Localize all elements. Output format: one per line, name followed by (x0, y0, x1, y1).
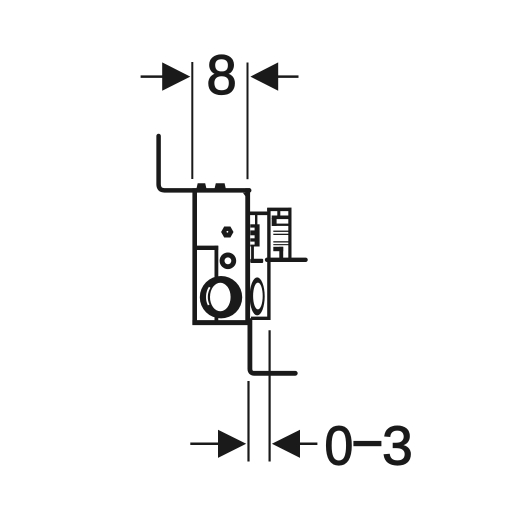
bellows stack (250, 224, 259, 246)
svg-text:0: 0 (324, 416, 353, 477)
dimension arrow top-left head (162, 62, 190, 90)
tab 1 on top edge (196, 183, 207, 190)
bellows foot (250, 259, 263, 263)
dimension arrow bottom-right head (272, 430, 300, 458)
cartridge cap band (272, 216, 289, 220)
valve housing bottom shelf (267, 258, 306, 262)
small ring (220, 252, 237, 269)
connector line body to valve (248, 212, 268, 216)
svg-text:8: 8 (206, 43, 236, 106)
extension line bottom-right (269, 330, 271, 461)
grommet highlight arc (207, 287, 210, 305)
valve housing left edge and compartment bottom (251, 208, 269, 318)
svg-text:3: 3 (382, 414, 413, 476)
extension line bottom-left (247, 381, 249, 462)
valve housing right edge (288, 208, 291, 260)
valve housing top edge (267, 208, 291, 212)
cartridge separator line 5 (273, 244, 288, 245)
hex nut (221, 227, 233, 238)
bellows stem top (255, 215, 257, 226)
dimension text dash (353, 441, 381, 446)
inner compartment divider horizontal (195, 246, 218, 250)
big grommet ring (200, 276, 242, 318)
dimension arrow top-left line (141, 75, 164, 78)
extension line top-left (191, 62, 193, 179)
body left edge (192, 188, 197, 325)
cartridge left step (272, 218, 277, 226)
flush bend ellipse (250, 277, 265, 315)
wall bracket top-left (159, 136, 250, 190)
cartridge separator line 3 (273, 234, 288, 235)
cartridge separator line 2 (273, 231, 288, 232)
body right edge (245, 188, 250, 325)
dimension arrow bottom-left line (190, 443, 220, 446)
cartridge separator line 4 (273, 241, 288, 242)
cartridge bottom band (273, 247, 283, 251)
extension line top-right (247, 63, 249, 180)
valve top divider (277, 208, 280, 216)
cartridge separator line 1 (275, 224, 288, 226)
tab 2 on top edge (214, 183, 226, 190)
dimension arrow bottom-right line (299, 443, 317, 446)
dimension arrow top-right line (277, 75, 299, 78)
dimension arrow bottom-left head (218, 430, 246, 458)
dimension arrow top-right head (250, 62, 278, 90)
cartridge bottom post (279, 247, 283, 258)
bellows stem bottom (251, 246, 254, 259)
bottom bracket (250, 321, 295, 374)
inner chamfer top-right (243, 193, 248, 200)
inner compartment divider vertical (214, 246, 218, 321)
body bottom edge (192, 320, 249, 325)
